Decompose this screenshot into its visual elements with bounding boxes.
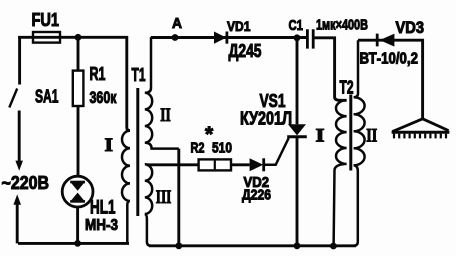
label *: [205, 123, 214, 146]
svg-text:I: I: [316, 126, 325, 147]
label II (T1): [160, 105, 171, 126]
label 510: [212, 140, 232, 156]
svg-text:II: II: [160, 105, 171, 126]
label МН-3: [85, 217, 118, 234]
label Т1: [132, 65, 146, 85]
thyristor VS1: [264, 38, 307, 246]
transformer T1 core: [136, 88, 139, 216]
terminal arrow down: [15, 161, 23, 171]
wire: R1 top lead: [77, 40, 80, 71]
label I (T1): [105, 135, 114, 156]
wire: R1 to HL1: [77, 106, 80, 176]
svg-text:1мк×400В: 1мк×400В: [316, 17, 368, 34]
capacitor C1: [307, 29, 313, 48]
svg-text:ВТ-10/0,2: ВТ-10/0,2: [360, 51, 419, 68]
label Д245: [229, 41, 262, 61]
svg-text:VD3: VD3: [396, 19, 425, 37]
svg-text:R1: R1: [90, 64, 106, 84]
transformer T1 winding I: [122, 131, 130, 244]
diode VD3: [377, 34, 394, 47]
svg-text:I: I: [105, 135, 114, 156]
label С1: [289, 17, 304, 34]
junction: T1-II common: [175, 242, 182, 249]
svg-text:С1: С1: [289, 17, 304, 34]
svg-text:FU1: FU1: [32, 10, 60, 30]
label III (T1): [156, 187, 172, 208]
neon lamp HL1: [62, 176, 93, 207]
wire: T1-II lead to common: [177, 149, 180, 246]
label R2: [191, 140, 205, 156]
wire: T1-III to R2: [147, 163, 199, 166]
switch SA1: [9, 89, 17, 108]
label II (T2): [366, 126, 377, 147]
label Т2: [340, 78, 354, 98]
svg-text:HL1: HL1: [90, 198, 116, 219]
svg-text:~220В: ~220В: [2, 172, 50, 193]
junction: node A: [172, 34, 179, 41]
label КУ201Л: [240, 109, 292, 129]
transformer T1 winding II: [145, 37, 179, 148]
wire: plug to bottom: [16, 204, 19, 243]
label HL1: [90, 198, 116, 219]
label SA1: [35, 87, 59, 107]
terminal arrow up: [13, 194, 21, 204]
junction: R1 tap: [75, 34, 82, 41]
svg-text:Т2: Т2: [340, 78, 354, 98]
svg-text:А: А: [172, 15, 182, 32]
junction: VS1 cathode common: [294, 242, 301, 249]
junction: C1 / VS1 anode: [294, 34, 301, 41]
junction: T2-I common: [330, 243, 337, 250]
label VS1: [260, 91, 286, 111]
wire: left drop to switch: [18, 36, 21, 85]
label ВТ-10/0,2: [360, 51, 419, 68]
wire: switch to plug terminal: [18, 111, 21, 162]
wire: secondary common bottom: [149, 244, 356, 247]
label FU1: [32, 10, 60, 30]
resistor R1: [73, 71, 84, 106]
wire: VD3 branch: [358, 40, 423, 119]
wire: mains bottom: [18, 242, 129, 245]
svg-text:Т1: Т1: [132, 65, 146, 85]
label VD3: [396, 19, 425, 37]
diode VD2: [250, 158, 264, 171]
label VD1: [227, 18, 251, 34]
wire: HL1 bottom lead: [76, 207, 79, 243]
junction: HL1 bottom: [74, 240, 81, 247]
wire: C1 to T2-I: [314, 38, 346, 101]
label 1мк×400В: [316, 17, 368, 34]
label I (T2): [316, 126, 325, 147]
label VD2: [244, 175, 270, 191]
label 360к: [90, 88, 117, 107]
label R1: [90, 64, 106, 84]
svg-text:II: II: [366, 126, 377, 147]
wire: T1 primary top lead: [127, 36, 130, 131]
label ~220В: [2, 172, 50, 193]
wire: mains top: [18, 36, 127, 39]
svg-text:Д245: Д245: [229, 41, 262, 61]
svg-text:МН-3: МН-3: [85, 217, 118, 234]
svg-text:360к: 360к: [90, 88, 117, 107]
svg-text:Д226: Д226: [242, 188, 271, 204]
svg-text:VD1: VD1: [227, 18, 251, 34]
svg-text:III: III: [156, 187, 172, 208]
diode VD1: [214, 32, 227, 44]
svg-text:КУ201Л: КУ201Л: [240, 109, 292, 129]
fuse FU1: [33, 32, 60, 43]
wire: R2 to VD2: [231, 163, 250, 166]
resistor R2: [199, 159, 231, 170]
transformer T1 winding III: [145, 164, 152, 246]
transformer T2 winding I: [334, 100, 347, 246]
svg-text:R2: R2: [191, 140, 205, 156]
spark gap (distributor): [392, 119, 450, 139]
svg-text:510: 510: [212, 140, 232, 156]
transformer T2 winding II: [353, 40, 365, 246]
wire: secondary top A line: [151, 36, 307, 39]
label Д226: [242, 188, 271, 204]
transformer T2 core: [349, 95, 352, 171]
svg-text:SA1: SA1: [35, 87, 59, 107]
label А (node A): [172, 15, 182, 32]
